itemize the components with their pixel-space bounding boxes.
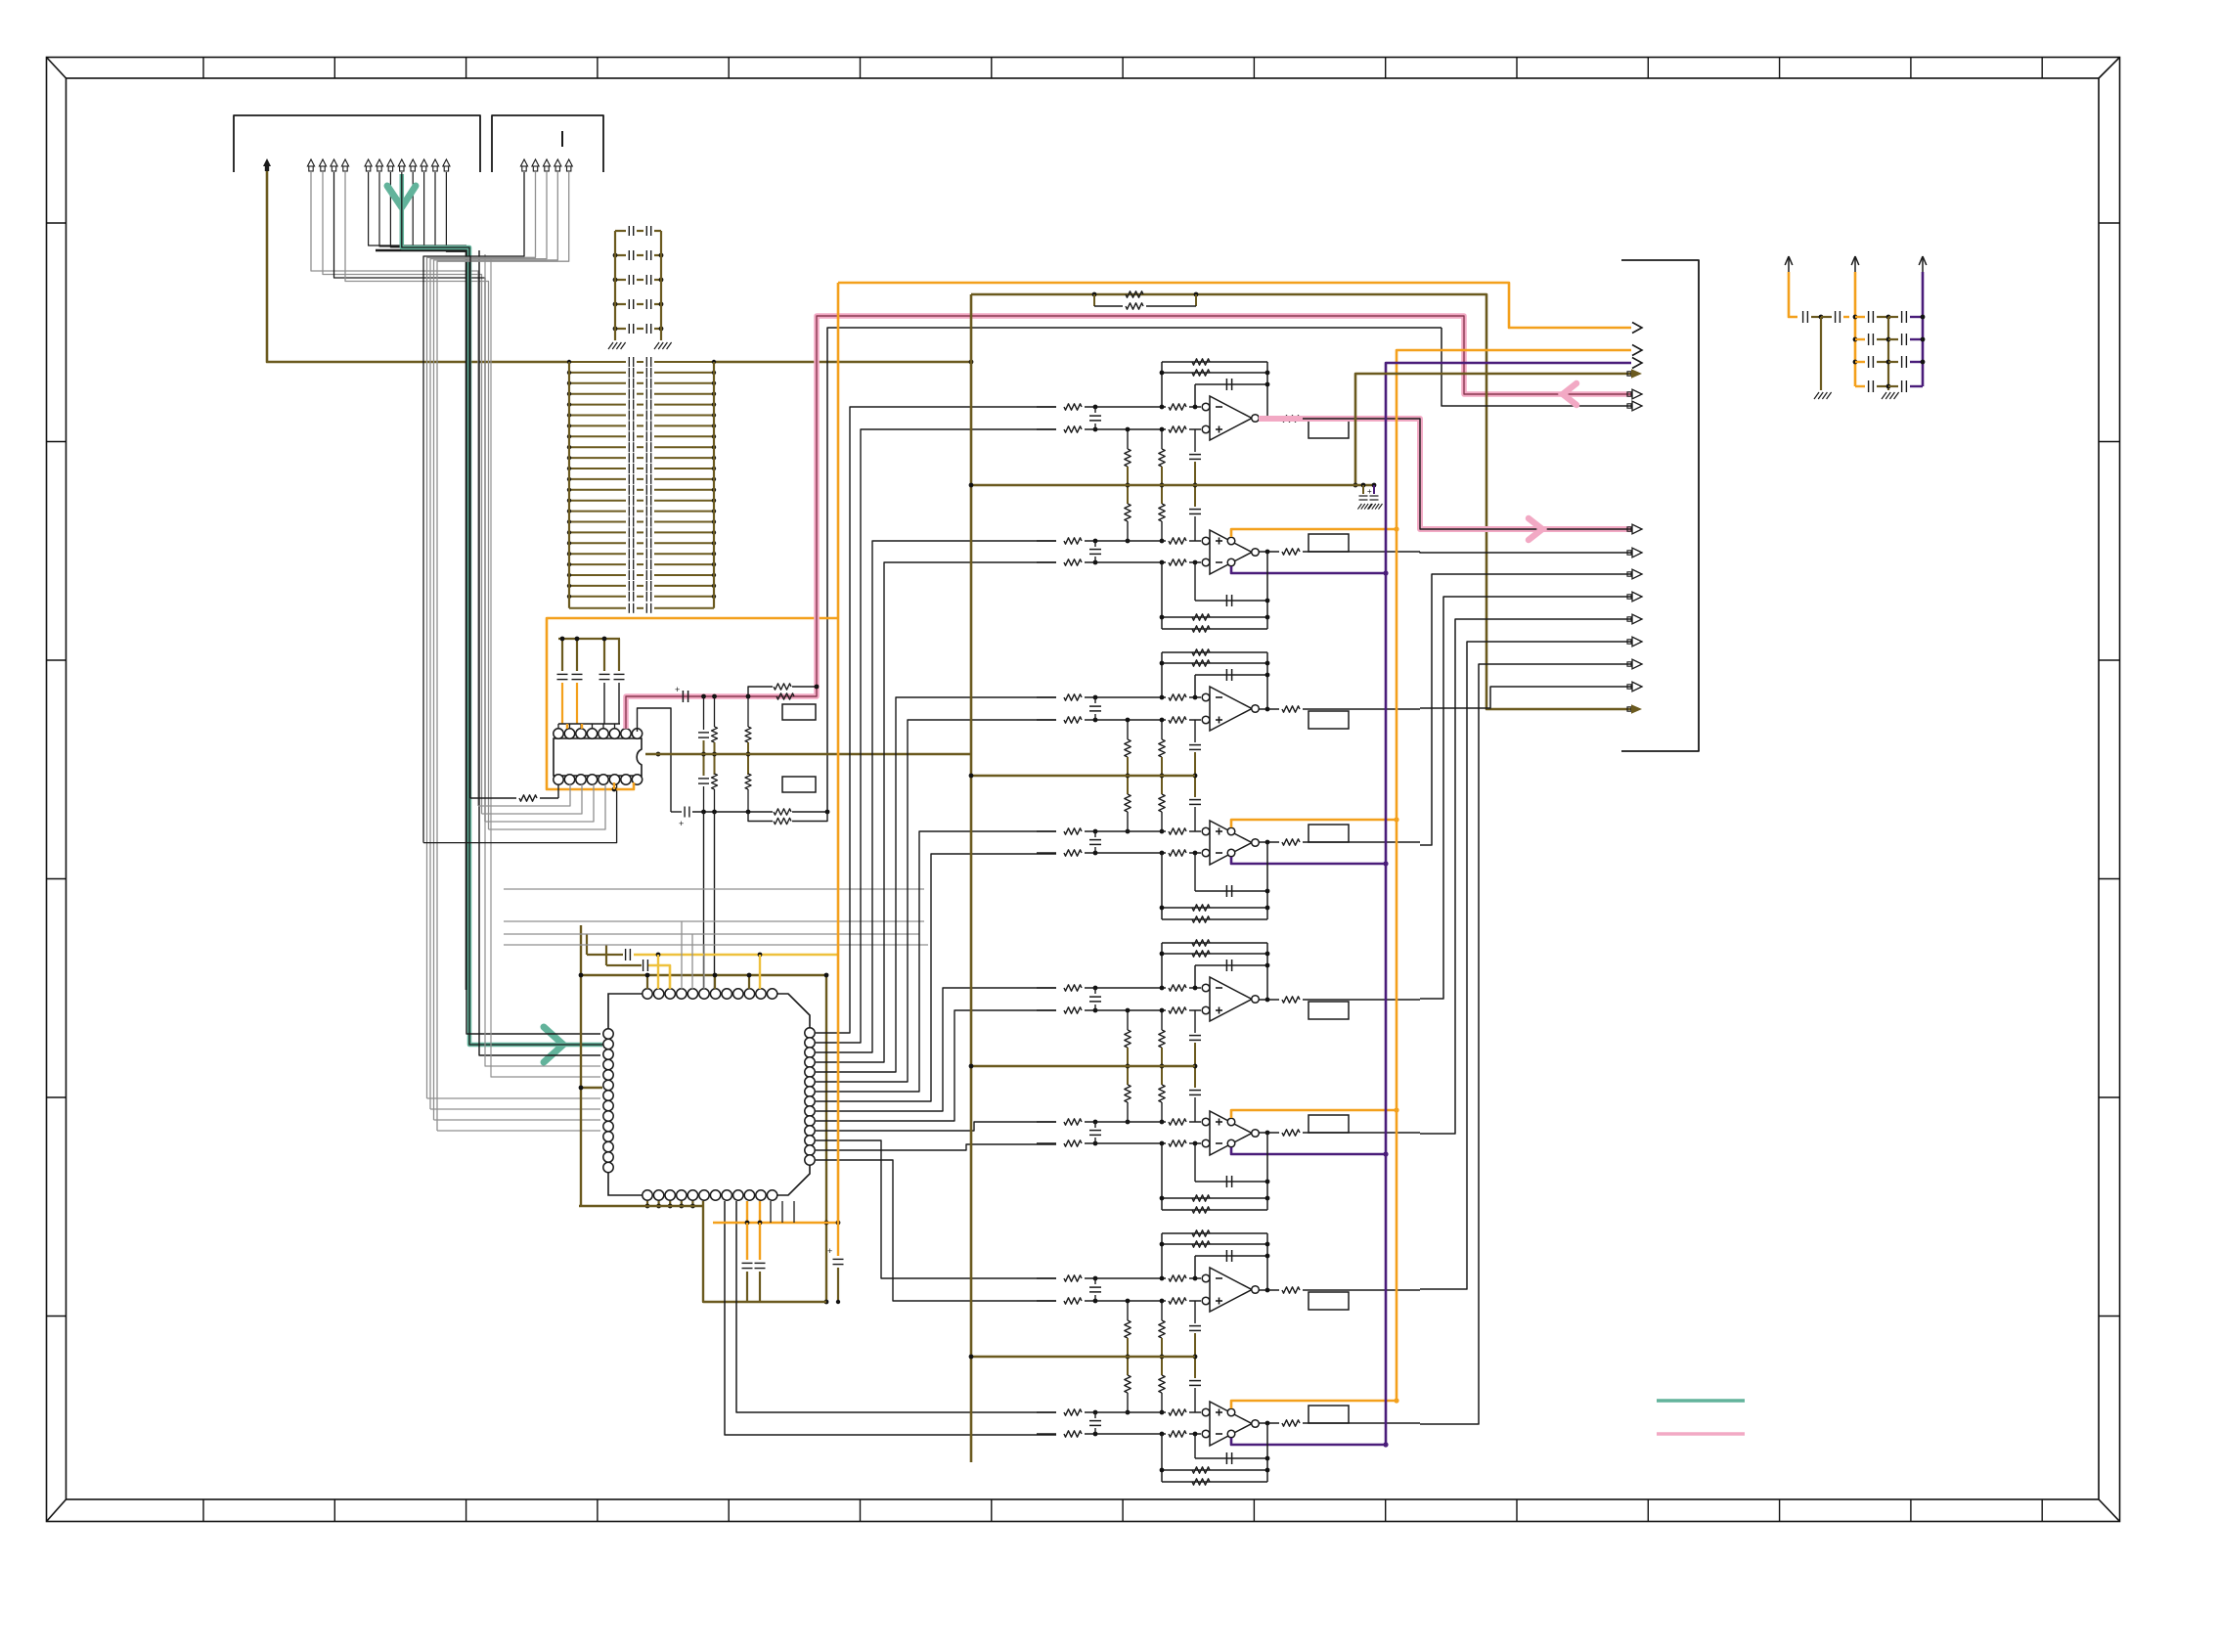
wire olive top rail xyxy=(971,294,1631,709)
wires U2 right fan to filters xyxy=(816,407,1056,1033)
teal arrow into U2 xyxy=(544,1027,563,1062)
wire olive U1 out xyxy=(645,753,971,756)
connector pins group B arrows xyxy=(365,159,372,166)
op-amp U5A/U5B filter block 3 xyxy=(1162,942,1267,944)
wires U1 to U2 grey bundle xyxy=(478,784,570,806)
divider col U1 c xyxy=(747,696,749,727)
wire grey bus y955 xyxy=(504,933,919,935)
junction dots pink line xyxy=(701,694,706,699)
wires group B fan xyxy=(369,172,466,246)
cap yellow2 xyxy=(622,964,642,966)
wire pink arrows xyxy=(1563,383,1576,405)
connector pins group C arrows xyxy=(520,159,527,166)
cap on pink line xyxy=(682,691,684,702)
wire orange lane2 xyxy=(1397,350,1631,1401)
svg-text:+: + xyxy=(1367,487,1372,496)
wires filter outputs to connector xyxy=(1420,552,1631,553)
divider col U1 b xyxy=(714,696,716,727)
orange rail and caps below U2 xyxy=(713,1222,838,1225)
wires U2 bottom to gnd bus xyxy=(646,1201,648,1206)
power arrow A1 xyxy=(263,158,271,166)
wire grey bus y909 xyxy=(504,888,924,890)
wire olive to U2 left pin xyxy=(581,1087,602,1089)
wires group C fan xyxy=(423,172,524,843)
cap gnd pair xyxy=(1362,485,1364,494)
wire olive main xyxy=(267,171,569,362)
RC stack array xyxy=(569,361,626,363)
wire bus y335 xyxy=(827,328,1442,812)
wire pink net2 xyxy=(1259,419,1631,529)
capacitor ladder bank1 xyxy=(615,230,626,232)
legend pink xyxy=(1657,1432,1745,1436)
wire olive left col xyxy=(580,925,582,1206)
cap yellow1 xyxy=(608,954,623,956)
wire col a down to U2 xyxy=(703,812,705,989)
wire U1 pin8 path xyxy=(638,708,672,812)
IC U1 DIP body and pins xyxy=(554,738,642,776)
wire olive bus ext blk1 xyxy=(1195,484,1374,486)
wire orange top rail xyxy=(838,283,1631,328)
decoupling caps above U1 xyxy=(558,638,620,640)
wire olive lane2 xyxy=(1355,374,1631,485)
wire orange U1 stubs xyxy=(566,724,568,729)
wire pink net2 core xyxy=(1303,419,1631,529)
wire teal core xyxy=(402,174,604,1045)
wire yellow net2 xyxy=(647,965,670,989)
svg-text:+: + xyxy=(827,1246,832,1256)
wire olive bus y997 xyxy=(581,974,826,976)
wire pink net1 core xyxy=(626,316,1631,729)
wire grey bus y966 xyxy=(504,944,928,946)
IC U2 QFP body and pins xyxy=(608,994,810,1195)
bottom rail U1 xyxy=(671,811,682,813)
wires U2 bottom to filter4 xyxy=(736,1201,1056,1412)
box K1 xyxy=(782,704,816,720)
resistor loop bottom U1 xyxy=(748,812,773,822)
svg-text:+: + xyxy=(679,819,684,828)
wire teal net xyxy=(402,174,602,1045)
connector J2 bracket xyxy=(492,115,603,172)
connector pins group A arrows xyxy=(307,159,314,166)
wires U2 bottom misc xyxy=(770,1201,772,1223)
wire olive vert x993 xyxy=(970,294,973,1462)
legend teal xyxy=(1657,1399,1745,1403)
op-amp U3A/U3B filter block 1 xyxy=(1162,361,1267,363)
box K2 xyxy=(782,777,816,792)
connector J1 bracket xyxy=(234,115,480,172)
wire grey bus y942 xyxy=(504,920,924,922)
stubs grey U2 top xyxy=(681,921,683,989)
connector J3 bracket and arrows xyxy=(1621,260,1699,751)
wire black y330 to conn xyxy=(1442,328,1631,406)
svg-text:+: + xyxy=(675,685,680,694)
op-amp U6A/U6B filter block 4 xyxy=(1162,1232,1267,1234)
wire yellow net1 xyxy=(634,954,838,957)
teal Y mark xyxy=(387,186,416,207)
wires U2 left upper pins xyxy=(466,990,600,1034)
wire orange U1 wrap xyxy=(547,618,838,789)
wires group A verticals xyxy=(311,172,478,806)
wire olive x845 down xyxy=(825,975,827,1302)
op-amp U4A/U4B filter block 2 xyxy=(1162,651,1267,653)
resistor pair on olive rail xyxy=(1092,292,1097,297)
wire pink net1 xyxy=(626,316,1631,729)
stubs olive to U2 top xyxy=(646,975,648,989)
divider col U1 a xyxy=(703,696,705,730)
wire bundle bold B xyxy=(376,250,466,990)
power input filter grid xyxy=(1788,256,1790,272)
wire purple lane xyxy=(1386,363,1631,1445)
resistor loop top U1 xyxy=(748,687,773,696)
wire col c down to U2 xyxy=(714,812,716,989)
resistor R-dip xyxy=(470,797,516,799)
dots olive U1 bus xyxy=(701,752,706,757)
pin mark J2 xyxy=(561,131,563,147)
wire orange vert main xyxy=(837,283,840,1223)
